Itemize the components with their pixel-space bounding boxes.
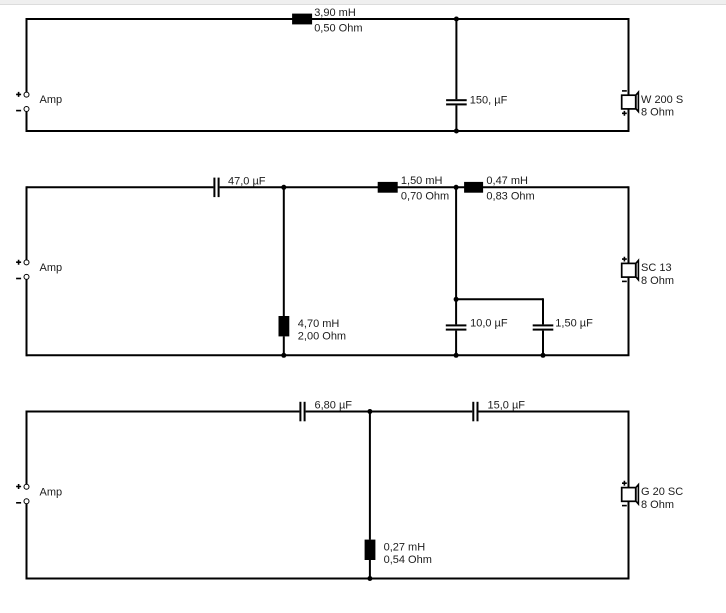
wire: shunt inductor branch upper C3 [369,412,371,540]
node: junction C2 bottom at 10µF [454,353,459,358]
node: junction C2 top at cap branch [454,185,459,190]
wire: C2 left side upper (to Amp +) [26,186,28,259]
node: junction C3 bottom [367,576,372,581]
wire: C2 top rail right of cap [220,186,629,188]
label speaker 1 impedance [641,107,674,119]
speaker 2 plus sign [622,257,627,262]
label L1 value [314,7,356,19]
svg-text:6,80 µF: 6,80 µF [315,399,353,411]
speaker W 200 S cone [636,92,639,111]
speaker SC 13 cone [636,260,639,279]
amp 3 plus sign [16,484,21,489]
wire: C1 right side upper [628,18,630,95]
svg-text:SC 13: SC 13 [641,262,672,274]
node: junction cap branch split [454,297,459,302]
label speaker 2 name [641,262,672,274]
amp 1 terminal - [24,107,29,112]
svg-text:0,70 Ohm: 0,70 Ohm [401,190,449,202]
wire: shunt branch C1 upper [455,19,457,99]
label L 0,47 mH resistance [486,190,534,202]
node: junction C1 top [454,17,459,22]
svg-text:10,0 µF: 10,0 µF [470,318,508,330]
amp 3 terminal - [24,499,29,504]
amp 1 minus sign [16,110,21,112]
wire: 10µF branch lower [455,331,457,356]
label L1 resistance [314,23,362,35]
label Amp 3 [40,486,63,498]
wire: C2 left side lower (from Amp -) [26,280,28,357]
wire: C3 top rail between caps [306,411,473,413]
label C 15µF [488,399,526,411]
speaker 1 minus sign [622,90,627,92]
speaker SC 13 magnet [622,263,636,277]
svg-text:0,83 Ohm: 0,83 Ohm [486,190,534,202]
label C 10µF [470,318,508,330]
wire: C1 left side lower (from Amp -) [26,112,28,132]
wire: cap branch horizontal to 1,50µF [456,298,543,300]
capacitor C 1,50µF [533,324,554,330]
label C 150µF [470,95,508,107]
label Amp 1 [40,94,63,106]
speaker G 20 SC cone [636,485,639,504]
svg-text:Amp: Amp [40,94,63,106]
svg-text:Amp: Amp [40,486,63,498]
svg-text:150, µF: 150, µF [470,95,508,107]
label Amp 2 [40,262,63,274]
node: junction C1 bottom [454,129,459,134]
svg-text:W 200 S: W 200 S [641,94,683,106]
node: junction C2 top at shunt inductor [281,185,286,190]
wire: C3 top rail right of 15µF [479,411,629,413]
inductor L 4,70 mH [279,316,290,336]
label C 1,50µF [555,318,593,330]
wire: C1 right side lower [628,109,630,131]
svg-text:0,47 mH: 0,47 mH [486,175,528,187]
wire: C3 right side lower [628,501,630,578]
label C 47µF [228,175,266,187]
speaker 3 minus sign [622,505,627,507]
wire: C1 top rail [27,18,629,20]
amp 2 terminal + [24,260,29,265]
label C 6,80µF [315,399,353,411]
label speaker 1 name [641,94,683,106]
capacitor C 6,80µF [299,402,305,422]
wire: C3 top rail left of 6,80µF [27,411,300,413]
label L 0,27 mH value [384,542,426,554]
inductor L 0,47 mH [464,182,483,193]
svg-text:1,50 µF: 1,50 µF [555,318,593,330]
capacitor C 47µF [213,178,219,198]
node: junction C2 bottom at 1,50µF [541,353,546,358]
amp 2 minus sign [16,278,21,280]
node: junction C2 bottom at shunt inductor [281,353,286,358]
amp 2 plus sign [16,260,21,265]
label speaker 3 name [641,486,683,498]
amp 3 terminal + [24,484,29,489]
wire: C2 right side upper [628,186,630,263]
capacitor C 150µF [446,99,467,105]
label L 0,47 mH value [486,175,528,187]
top toolbar strip [0,0,726,5]
capacitor C 15µF [472,402,478,422]
amp 3 minus sign [16,502,21,504]
speaker G 20 SC magnet [622,488,636,502]
svg-text:0,27 mH: 0,27 mH [384,542,426,554]
svg-text:0,50 Ohm: 0,50 Ohm [314,23,362,35]
wire: C3 left side upper (to Amp +) [26,411,28,485]
wire: C3 right side upper [628,411,630,488]
wire: shunt inductor branch lower [283,336,285,355]
wire: C2 top rail left of cap [27,186,214,188]
wire: 10µF branch middle [455,299,457,324]
wire: 1,50µF branch lower [542,331,544,356]
wire: 1,50µF branch upper [542,298,544,324]
amp 1 plus sign [16,92,21,97]
svg-text:47,0 µF: 47,0 µF [228,175,266,187]
wire: shunt inductor branch upper [283,187,285,316]
svg-text:3,90 mH: 3,90 mH [314,7,356,19]
wire: shunt inductor branch lower C3 [369,560,371,579]
wire: C2 bottom rail [27,354,630,356]
amp 2 terminal - [24,274,29,279]
svg-text:G 20 SC: G 20 SC [641,486,683,498]
wire: C3 left side lower (from Amp -) [26,504,28,580]
label L 1,50 mH value [401,175,443,187]
label speaker 2 impedance [641,275,674,287]
speaker 1 plus sign [622,111,627,116]
label L 4,70 mH resistance [298,330,346,342]
svg-text:4,70 mH: 4,70 mH [298,318,340,330]
svg-text:8 Ohm: 8 Ohm [641,107,674,119]
speaker 2 minus sign [622,280,627,282]
svg-text:0,54 Ohm: 0,54 Ohm [384,554,432,566]
svg-text:1,50 mH: 1,50 mH [401,175,443,187]
wire: shunt branch C1 lower [455,105,457,131]
label L 1,50 mH resistance [401,190,449,202]
inductor L 1,50 mH [378,182,398,193]
capacitor C 10µF [446,324,467,330]
svg-text:15,0 µF: 15,0 µF [488,399,526,411]
svg-text:2,00 Ohm: 2,00 Ohm [298,330,346,342]
svg-text:8 Ohm: 8 Ohm [641,499,674,511]
speaker 3 plus sign [622,481,627,486]
inductor L 0,27 mH [365,540,376,560]
wire: C2 right side lower [628,277,630,355]
wire: C1 bottom rail [27,130,630,132]
speaker W 200 S magnet [622,95,636,109]
label L 4,70 mH value [298,318,340,330]
wire: cap branch vertical upper [455,187,457,299]
node: junction C3 top [367,409,372,414]
inductor L1 3,90 mH [292,14,312,25]
label L 0,27 mH resistance [384,554,432,566]
label speaker 3 impedance [641,499,674,511]
amp 1 terminal + [24,92,29,97]
svg-text:Amp: Amp [40,262,63,274]
svg-text:8 Ohm: 8 Ohm [641,275,674,287]
wire: C3 bottom rail [27,578,630,580]
wire: C1 left side upper (to Amp +) [26,18,28,92]
